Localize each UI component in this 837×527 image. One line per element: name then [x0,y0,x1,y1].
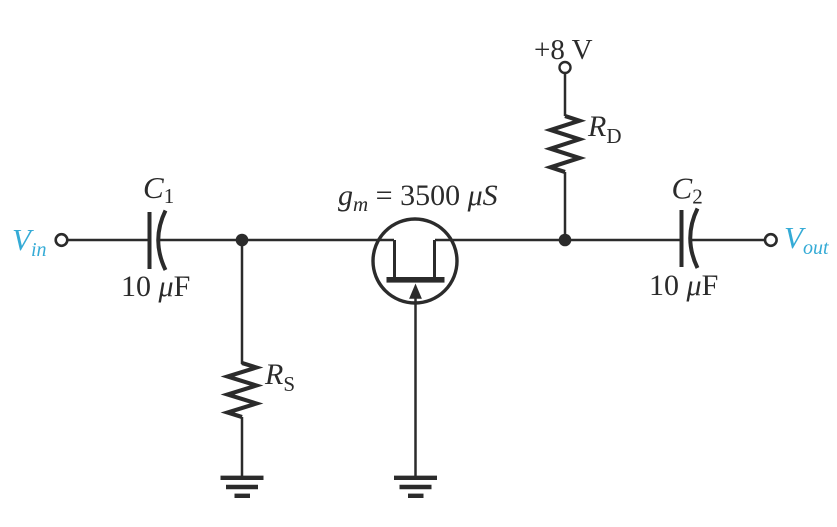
node junction B [559,234,572,247]
wire JFET to C2 [435,239,680,242]
svg-text:Vout: Vout [784,220,829,259]
svg-text:gm = 3500 μS: gm = 3500 μS [338,179,498,216]
node junction A [236,234,249,247]
transistor Q1 channel bar [387,277,445,283]
wire node A to RS [241,240,244,364]
resistor RS [228,363,257,417]
transistor Q1 gate arrow [409,284,422,299]
node Vout terminal [765,234,777,246]
svg-text:RS: RS [264,358,295,396]
resistor RD [551,116,580,172]
svg-text:10 μF: 10 μF [121,270,190,303]
svg-text:10 μF: 10 μF [649,269,718,302]
svg-text:RD: RD [587,110,622,148]
wire C1 to JFET [160,239,394,242]
wire gate to ground [414,296,417,477]
ground (RS) [221,478,264,496]
wire Vin to C1 [68,239,148,242]
wire RD to node B [564,172,567,240]
wire RS to ground [241,417,244,477]
capacitor C2 [682,209,698,269]
node Vin terminal [56,234,68,246]
node +8V terminal [560,62,571,73]
ground (gate) [394,478,437,496]
svg-text:Vin: Vin [12,222,47,261]
svg-text:C1: C1 [143,170,174,208]
svg-text:C2: C2 [672,171,703,209]
wire +8V to RD [564,73,567,116]
transistor Q1 (JFET) [373,219,457,303]
capacitor C1 [150,211,166,271]
wire C2 to Vout [692,239,765,242]
